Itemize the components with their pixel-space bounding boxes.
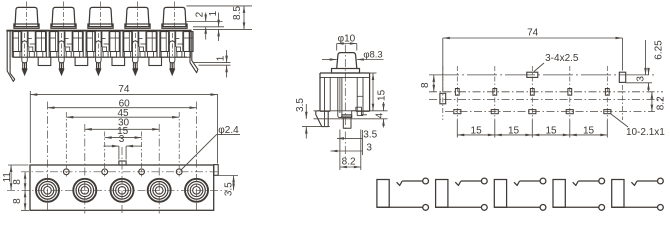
svg-text:1: 1 <box>208 10 219 16</box>
jack 2 housing bottom edge <box>49 56 76 58</box>
jack 3 cap <box>89 7 112 26</box>
side view solder pin <box>343 118 351 129</box>
plan view right tab <box>214 165 219 176</box>
dimension 15 <box>105 137 142 139</box>
jack 1 right contact <box>36 32 46 52</box>
jack 4 cap <box>126 7 149 26</box>
dimension 4 (side) <box>383 102 385 111</box>
svg-text:6.25: 6.25 <box>654 40 665 60</box>
terminal pad bottom 1 (2.1x1) <box>454 110 461 114</box>
vertical centerlines through sockets <box>47 102 49 214</box>
svg-text:φ10: φ10 <box>338 33 356 44</box>
plan view horizontal centerline through holes <box>21 171 218 173</box>
mounting hole 1 (phi 2.4) <box>63 169 69 175</box>
jack J4 sleeve terminal <box>599 205 605 211</box>
mounting hole 4 (phi 2.4) <box>176 169 182 175</box>
jack J3 wire to sleeve terminal <box>494 206 540 208</box>
svg-text:φ2.4: φ2.4 <box>218 125 239 136</box>
jack 3 cap flange <box>88 24 113 28</box>
phi 2.4 leader <box>181 135 217 171</box>
terminal pad top 5 (2.1x1) <box>605 89 609 96</box>
jack J1 schematic body <box>377 180 389 208</box>
label 10-2.1x1 with leader <box>611 114 628 127</box>
jack J2 switch contact <box>455 181 461 185</box>
dimension 8 upper (left) <box>24 172 26 191</box>
svg-text:1: 1 <box>216 55 227 61</box>
terminal pad top 3 (2.1x1) <box>530 89 534 96</box>
jack J2 schematic body <box>436 180 448 208</box>
jack 5 cap <box>163 7 186 26</box>
dimension 1 lower <box>193 62 231 64</box>
jack 4 housing bottom edge <box>123 56 150 58</box>
svg-text:8: 8 <box>12 179 23 185</box>
jack 4 module housing walls <box>122 32 124 58</box>
jack 4 solder pin <box>133 63 137 69</box>
dimension 3 (tab width) <box>118 146 120 159</box>
jack J1 sleeve terminal <box>423 205 429 211</box>
jack J1 switch contact <box>397 181 403 185</box>
dimension 8.5 <box>243 6 245 30</box>
jack 1 left contact <box>13 32 21 52</box>
jack J3 switch contact <box>514 181 520 185</box>
jack J5 sleeve terminal <box>658 205 664 211</box>
svg-text:74: 74 <box>527 28 539 39</box>
terminal pad top 2 (2.1x1) <box>493 89 497 96</box>
jack 5 solder pin <box>170 63 174 69</box>
jack 1 solder pin <box>23 63 27 69</box>
dimension phi 10 <box>336 44 338 51</box>
jack J4 tip terminal <box>599 178 605 184</box>
svg-text:4: 4 <box>375 112 386 118</box>
dimension 3.5 (left) <box>305 104 307 119</box>
jack 4 cap flange <box>125 24 150 28</box>
svg-text:15: 15 <box>545 126 557 137</box>
jack 4 middle bracket contact <box>138 32 140 47</box>
dimension 8 (footprint left) <box>433 75 435 92</box>
side view body outline <box>320 72 370 74</box>
jack 4 centerline <box>137 2 139 28</box>
dimension 45 <box>66 116 179 118</box>
jack J5 wire to tip terminal <box>637 180 658 182</box>
jack 2 cap <box>52 7 75 26</box>
jack 5 right contact <box>184 32 194 52</box>
terminal pad bottom 3 (2.1x1) <box>529 110 536 114</box>
svg-text:15: 15 <box>508 126 520 137</box>
jack 3 socket circles (plan) <box>111 179 134 202</box>
housing blocks between modules <box>38 57 51 65</box>
side view left leg <box>324 77 326 111</box>
jack 2 right contact <box>73 32 83 52</box>
jack J3 wire to tip terminal <box>520 180 541 182</box>
jack 2 solder pin <box>60 63 64 69</box>
jack J3 sleeve terminal <box>540 205 546 211</box>
terminal pad top 1 (2.1x1) <box>455 89 459 96</box>
jack J4 switch contact <box>573 181 579 185</box>
side view cap flange <box>332 69 360 74</box>
jack 4 right contact <box>147 32 157 52</box>
plan view horizontal centerline through sockets <box>7 189 228 191</box>
jack 1 module housing walls <box>11 32 13 58</box>
footprint column centerline 3 <box>531 66 533 120</box>
jack J2 wire to tip terminal <box>461 180 482 182</box>
svg-text:10-2.1x1: 10-2.1x1 <box>626 127 665 138</box>
jack J5 switch contact <box>631 181 637 185</box>
jack 3 center spring finger <box>95 32 97 44</box>
side view extension lines <box>314 110 388 112</box>
dimension 3.5 (right tab) <box>218 175 238 177</box>
side view center spring finger <box>338 77 342 117</box>
jack 1 socket circles (plan) <box>36 179 59 202</box>
svg-text:3.5: 3.5 <box>363 130 377 141</box>
jack 3 middle bracket contact <box>101 32 103 47</box>
svg-text:15: 15 <box>377 89 388 101</box>
dimension phi 8.3 <box>322 59 337 61</box>
dimension 30 <box>85 128 159 130</box>
dimension 11 (left) <box>8 164 29 166</box>
jack 1 housing bottom edge <box>12 56 39 58</box>
plan view top tab <box>119 161 126 165</box>
jack J4 wire to sleeve terminal <box>553 206 599 208</box>
right mounting pad column <box>622 85 624 120</box>
dimension 74 (plan) <box>29 91 31 163</box>
jack 5 center spring finger <box>168 32 170 44</box>
side view contact staircase <box>352 107 367 117</box>
jack J1 tip terminal <box>423 178 429 184</box>
jack 5 middle bracket contact <box>175 32 177 47</box>
mounting hole 2 (phi 2.4) <box>102 169 108 175</box>
jack J3 tip terminal <box>540 178 546 184</box>
jack 1 cap flange <box>14 24 39 28</box>
terminal pad bottom 5 (2.1x1) <box>604 110 611 114</box>
footprint column centerline 5 <box>606 66 608 120</box>
svg-text:φ8.3: φ8.3 <box>363 50 382 61</box>
svg-text:8: 8 <box>12 198 23 204</box>
jack 3 solder pin <box>97 63 101 69</box>
left mounting pad 4x2.5 <box>440 93 446 104</box>
plan view: jack strip body outline <box>30 165 214 210</box>
dimension 8 lower (left) <box>21 209 29 211</box>
jack 3 centerline <box>100 2 102 28</box>
jack J5 tip terminal <box>658 178 664 184</box>
jack 2 left contact <box>50 32 58 52</box>
jack J1 wire to tip terminal <box>402 180 423 182</box>
jack 5 centerline <box>174 2 176 28</box>
dimension 6.25 <box>645 40 647 75</box>
jack 5 left contact <box>161 32 169 52</box>
jack J2 wire to sleeve terminal <box>436 206 482 208</box>
jack 5 housing bottom edge <box>160 56 187 58</box>
jack J2 tip terminal <box>481 178 487 184</box>
jack 1 cap <box>15 7 38 26</box>
jack 4 socket circles (plan) <box>148 179 171 202</box>
dimension 8.2 (footprint right) <box>651 92 653 112</box>
footprint horizontal axis row 4 <box>445 111 655 113</box>
jack 2 middle bracket contact <box>64 32 66 47</box>
jack J4 schematic body <box>553 180 565 208</box>
footprint horizontal axis row 3 <box>429 99 663 101</box>
jack 1 center spring finger <box>21 32 23 44</box>
footprint column centerline 2 <box>494 66 496 120</box>
jack 2 cap flange <box>51 24 76 28</box>
left mounting pad column <box>442 66 444 120</box>
side view right leg <box>356 77 358 115</box>
svg-text:3: 3 <box>635 76 646 82</box>
jack 2 center spring finger <box>58 32 60 44</box>
extension lines for cap dimensions <box>187 5 253 7</box>
svg-text:15: 15 <box>471 126 483 137</box>
jack 3 left contact <box>87 32 95 52</box>
dimension 2 <box>205 13 207 22</box>
left mounting leg <box>7 32 15 82</box>
dimension 60 <box>48 107 197 109</box>
svg-text:8: 8 <box>420 82 431 88</box>
jack 4 left contact <box>124 32 132 52</box>
jack J2 sleeve terminal <box>481 205 487 211</box>
svg-text:74: 74 <box>118 84 130 95</box>
jack J5 schematic body <box>612 180 624 208</box>
jack 2 socket circles (plan) <box>73 179 96 202</box>
svg-text:3.5: 3.5 <box>223 182 234 196</box>
mounting hole 3 (phi 2.4) <box>139 169 145 175</box>
footprint horizontal axis row 1 <box>429 74 655 76</box>
svg-text:8.2: 8.2 <box>342 156 356 167</box>
jack 3 housing bottom edge <box>86 56 113 58</box>
right mounting leg <box>190 32 198 73</box>
side view centerline <box>344 45 346 161</box>
svg-text:15: 15 <box>583 126 595 137</box>
jack J5 wire to sleeve terminal <box>612 206 658 208</box>
jack J1 wire to sleeve terminal <box>377 206 423 208</box>
jack J3 schematic body <box>494 180 506 208</box>
housing top rail <box>6 30 191 32</box>
jack 4 center spring finger <box>132 32 134 44</box>
dimension 1 upper <box>218 13 220 27</box>
footprint column centerline 1 <box>456 66 458 120</box>
side view mounting hook <box>316 111 328 127</box>
vertical centerlines through holes <box>65 112 67 177</box>
terminal pad bottom 4 (2.1x1) <box>566 110 573 114</box>
dimension 3 (footprint right) <box>626 82 652 84</box>
jack 5 cap flange <box>162 24 187 28</box>
footprint horizontal axis row 2 <box>429 91 663 93</box>
jack 2 centerline <box>63 2 65 28</box>
svg-text:3: 3 <box>119 134 125 145</box>
side view contact band <box>342 115 352 118</box>
jack 2 module housing walls <box>48 32 50 58</box>
svg-text:8.2: 8.2 <box>656 96 667 110</box>
jack 5 module housing walls <box>159 32 161 58</box>
dimension 15 (side) <box>370 72 377 74</box>
jack J4 wire to tip terminal <box>578 180 599 182</box>
terminal pad top 4 (2.1x1) <box>568 89 572 96</box>
footprint column centerline 4 <box>569 66 571 120</box>
svg-text:3: 3 <box>366 142 372 153</box>
dimension 74 (footprint) <box>442 38 444 92</box>
dimension 8.2 (bottom) <box>339 130 341 171</box>
jack 1 centerline <box>26 2 28 28</box>
svg-text:3-4x2.5: 3-4x2.5 <box>545 53 579 64</box>
right mounting pad 4x2.5 <box>619 72 625 82</box>
jack 5 socket circles (plan) <box>185 179 208 202</box>
center mounting pad 4x2.5 <box>527 72 538 77</box>
terminal pad bottom 2 (2.1x1) <box>491 110 498 114</box>
jack 3 right contact <box>110 32 120 52</box>
jack 1 middle bracket contact <box>27 32 29 47</box>
side view cap <box>337 53 357 69</box>
dimension 3 (bottom) <box>331 150 363 152</box>
jack 3 module housing walls <box>85 32 87 58</box>
svg-text:3.5: 3.5 <box>295 98 306 112</box>
dimension 3.5 (bottom) <box>362 130 364 155</box>
svg-text:8.5: 8.5 <box>232 6 243 20</box>
dimensions 15 x4 (footprint bottom) <box>456 120 458 138</box>
svg-text:2: 2 <box>194 11 205 17</box>
